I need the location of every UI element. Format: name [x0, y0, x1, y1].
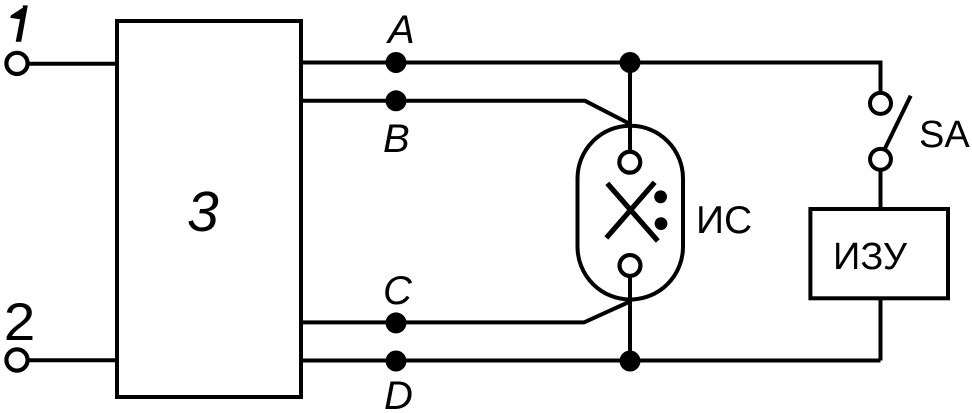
svg-text:ИЗУ: ИЗУ: [833, 236, 908, 278]
svg-text:2: 2: [4, 292, 36, 352]
svg-text:ИС: ИС: [696, 199, 752, 242]
svg-text:D: D: [384, 374, 413, 413]
svg-text:A: A: [386, 8, 415, 52]
svg-text:C: C: [383, 269, 413, 313]
svg-text:SA: SA: [919, 114, 970, 156]
svg-text:3: 3: [187, 180, 219, 244]
svg-text:B: B: [383, 117, 410, 161]
